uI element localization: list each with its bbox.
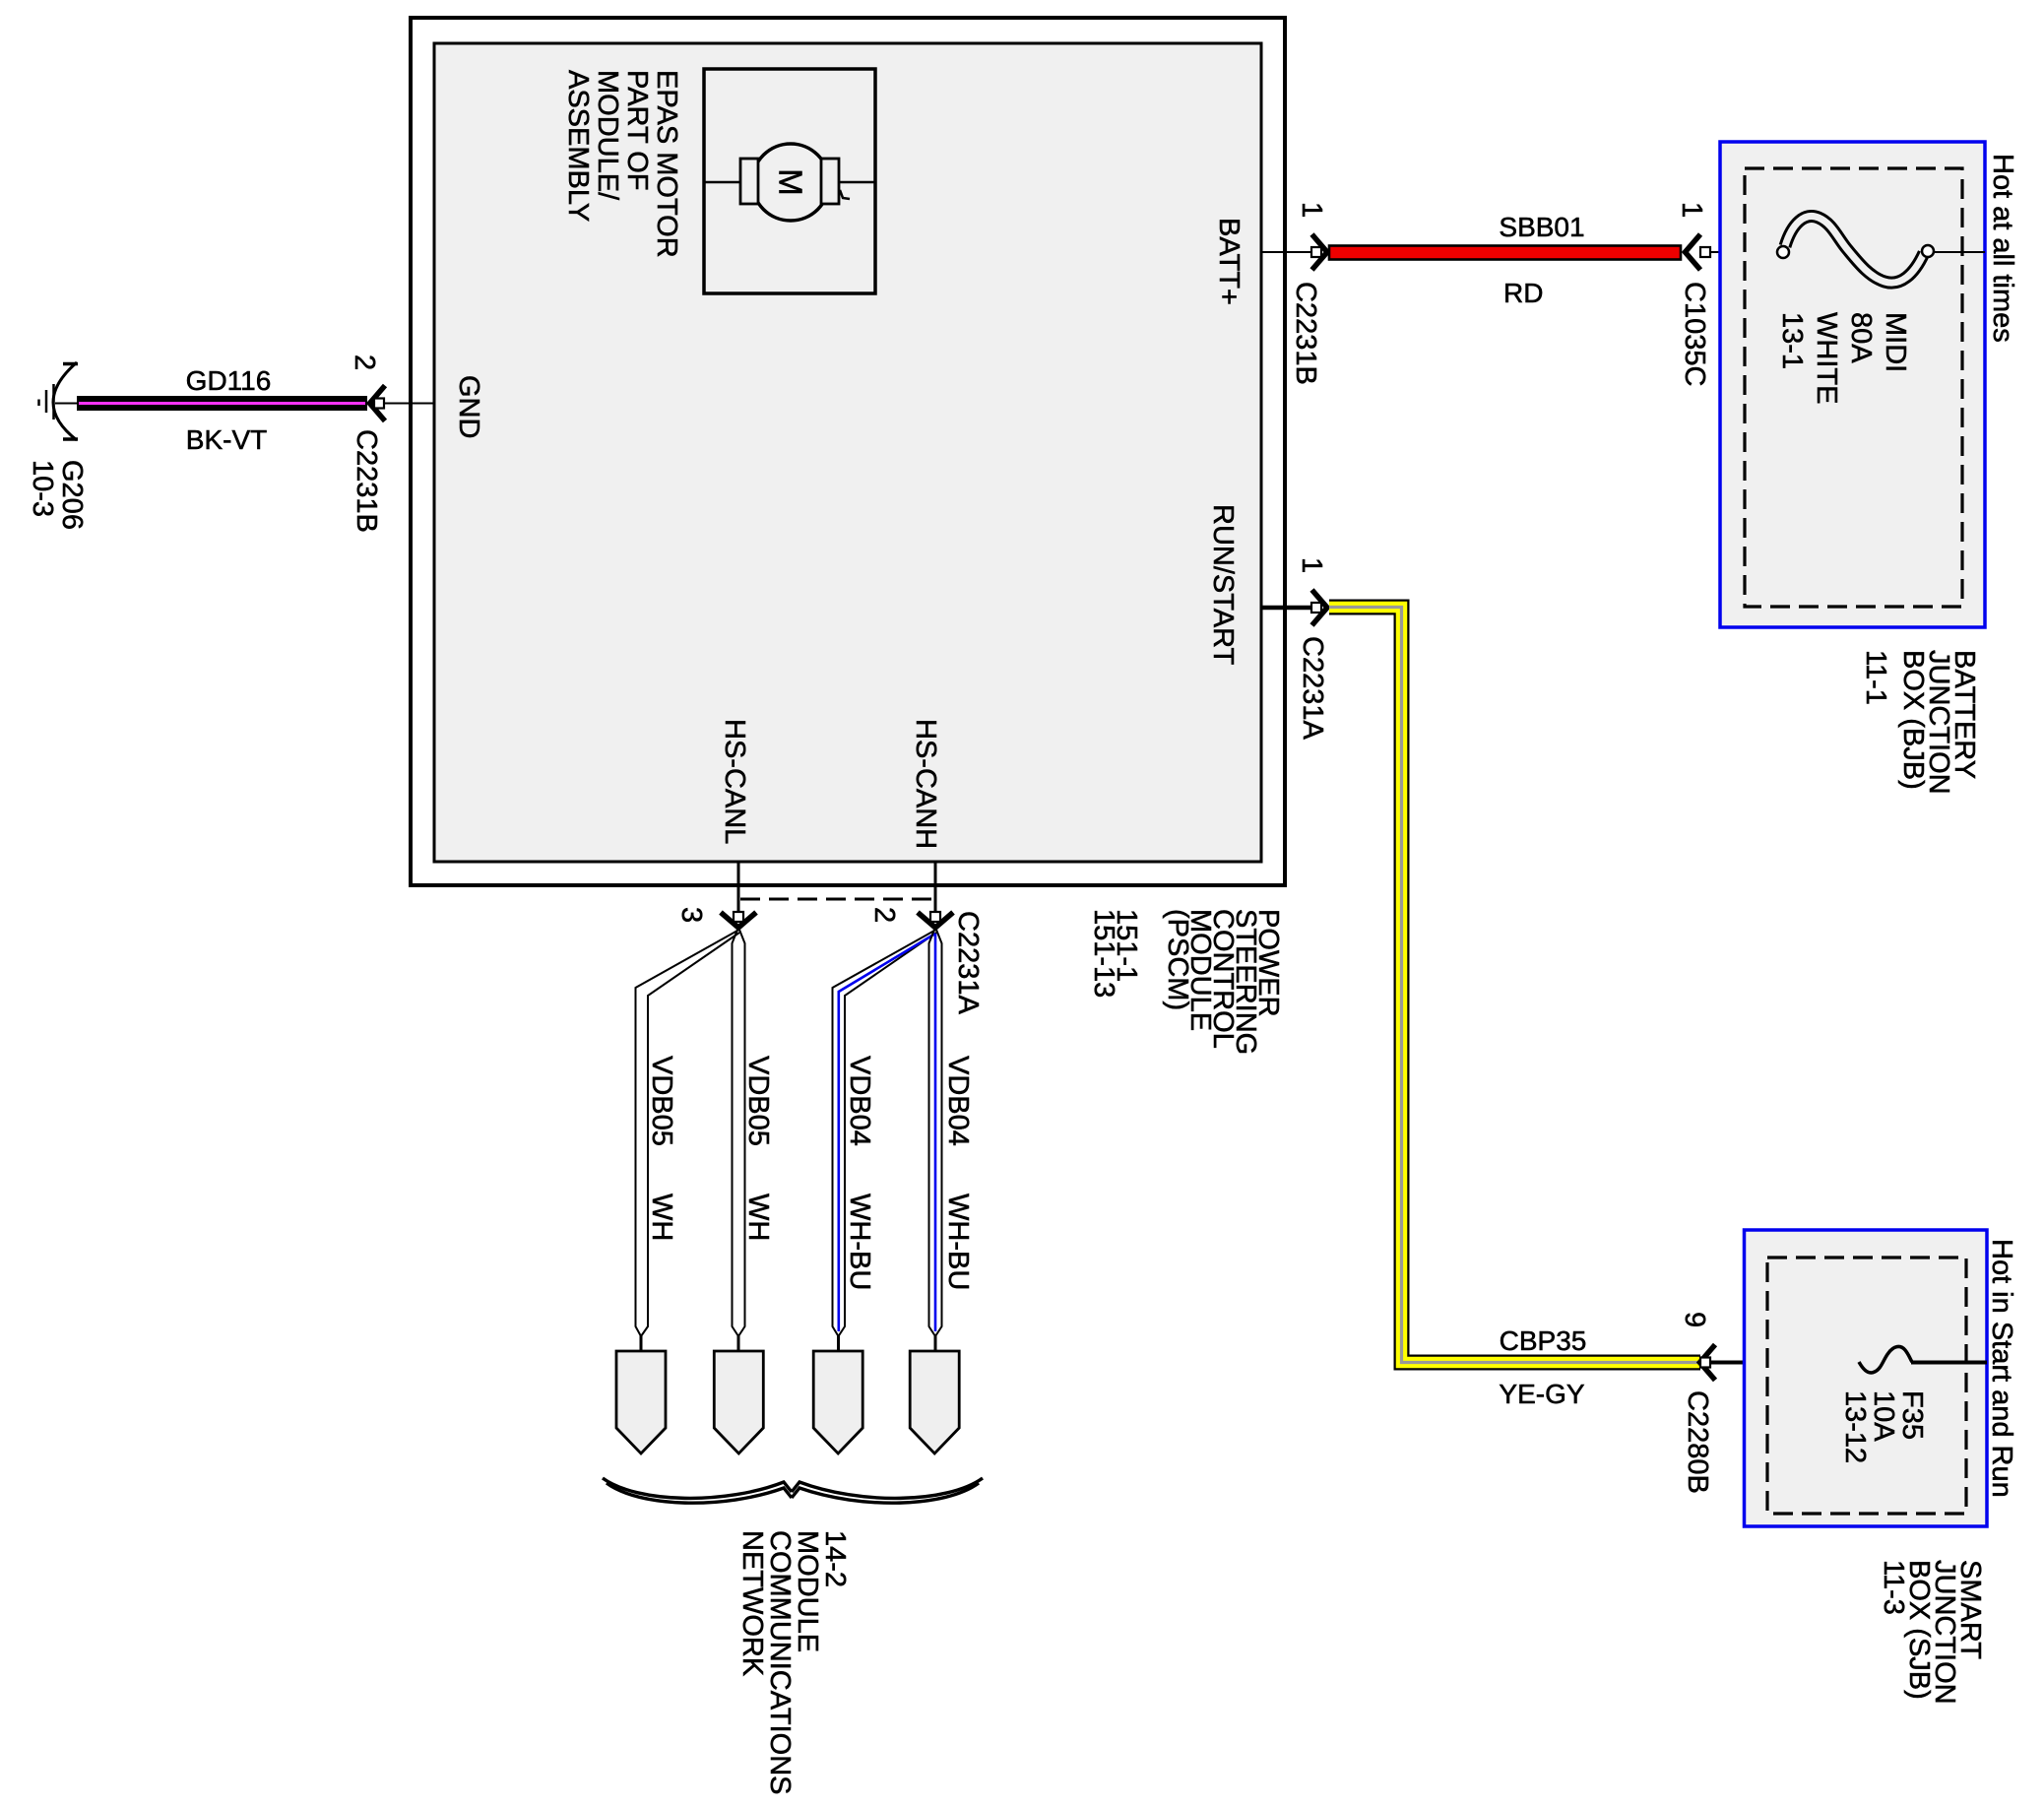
PSCM outer box: [411, 18, 1285, 885]
svg-text:Hot at all times: Hot at all times: [1987, 154, 2018, 343]
wire stub to terminal 1: [640, 1335, 643, 1352]
svg-text:2: 2: [868, 907, 900, 923]
svg-text:BATTERYJUNCTIONBOX (BJB)11-1: BATTERYJUNCTIONBOX (BJB)11-1: [1860, 650, 1980, 795]
wire stub HS-CANH: [934, 862, 937, 918]
svg-text:CBP35: CBP35: [1500, 1325, 1587, 1356]
terminal connector 2: [714, 1351, 763, 1453]
BJB dashed border: [1745, 168, 1962, 607]
svg-text:VDB05WH: VDB05WH: [646, 1056, 677, 1241]
wire stub to terminal 3: [837, 1335, 840, 1352]
svg-text:HS-CANH: HS-CANH: [910, 719, 941, 849]
wire SBB01 RD: [1329, 246, 1681, 260]
motor M1 circle: [752, 144, 829, 221]
svg-text:C2280B: C2280B: [1682, 1390, 1713, 1494]
smart junction box (SJB) blue box: [1745, 1230, 1988, 1526]
SJB dashed border: [1767, 1258, 1966, 1514]
twisted pair wire VDB05 (pin 3, straight drop): [733, 930, 745, 1336]
svg-text:BATT+: BATT+: [1213, 218, 1245, 305]
svg-text:2: 2: [349, 355, 380, 370]
fuse MIDI 80A wavy element: [1785, 216, 1924, 283]
terminal connector 1: [616, 1351, 666, 1453]
svg-text:C2231A: C2231A: [1297, 636, 1328, 740]
svg-text:RUN/START: RUN/START: [1207, 504, 1239, 666]
motor brush right: [821, 159, 839, 204]
svg-text:GD116: GD116: [186, 365, 272, 396]
wire fuse to BJB edge: [1934, 251, 1985, 253]
twisted pair wire VDB04 WH-BU (pin 2, left drop): [833, 931, 937, 1336]
fuse terminal circle right: [1922, 245, 1934, 257]
wire stub to terminal 2: [737, 1335, 740, 1352]
wire stub BATT+: [1261, 251, 1312, 253]
wire into BJB fuse: [1710, 251, 1779, 253]
svg-text:3: 3: [675, 907, 707, 923]
svg-text:M: M: [773, 168, 809, 196]
wire CBP35 YE-GY: [1329, 608, 1700, 1363]
motor M1 lead wire right: [838, 181, 874, 184]
svg-text:SMARTJUNCTIONBOX (SJB)11-3: SMARTJUNCTIONBOX (SJB)11-3: [1878, 1560, 1986, 1705]
twisted pair wire VDB05 (pin 3, left drop): [636, 931, 740, 1336]
battery junction box (BJB) blue box: [1720, 142, 1985, 627]
svg-text:BK-VT: BK-VT: [186, 424, 267, 455]
wire stub to terminal 4: [934, 1335, 937, 1352]
connector pin arrow C2231A-3: [721, 912, 756, 928]
wire stub RUN/START: [1261, 606, 1312, 611]
fuse terminal circle left: [1777, 246, 1789, 258]
brace module communications network: [603, 1478, 983, 1503]
svg-text:C2231A: C2231A: [952, 911, 984, 1014]
svg-text:POWERSTEERINGCONTROLMODULE(PSC: POWERSTEERINGCONTROLMODULE(PSCM)151-1151…: [1088, 909, 1284, 1055]
connector C2231A dashed link: [740, 898, 933, 901]
svg-text:1: 1: [1296, 557, 1327, 573]
svg-text:YE-GY: YE-GY: [1499, 1379, 1584, 1409]
terminal connector 3: [813, 1351, 862, 1453]
wire fuse to SJB edge: [1911, 1361, 1987, 1365]
connector pin arrow C2231B-2: [370, 386, 386, 421]
svg-text:HS-CANL: HS-CANL: [719, 719, 750, 844]
wire GD116 BK-VT: [77, 396, 367, 411]
motor polarity tick: [840, 190, 850, 199]
svg-text:C2231B: C2231B: [351, 429, 382, 533]
wire stub GND to box: [367, 403, 434, 405]
svg-text:VDB04WH-BU: VDB04WH-BU: [942, 1056, 974, 1290]
svg-text:14-2MODULECOMMUNICATIONSNETWOR: 14-2MODULECOMMUNICATIONSNETWORK: [736, 1530, 851, 1795]
svg-text:C1035C: C1035C: [1679, 282, 1710, 386]
wire stub HS-CANL: [737, 862, 740, 918]
ground symbol G206: [39, 362, 79, 440]
connector pin arrow C2231B-1: [1311, 234, 1327, 270]
connector pin arrow C2280B-9: [1700, 1345, 1716, 1381]
motor M1 lead wire left: [705, 181, 742, 184]
connector pin arrow C2231A-1: [1311, 590, 1327, 625]
connector pin arrow C2231A-2: [918, 912, 953, 928]
connector pin arrow C1035C-1: [1686, 234, 1711, 270]
terminal connector 4: [910, 1351, 959, 1453]
svg-text:RD: RD: [1503, 278, 1543, 308]
svg-text:VDB04WH-BU: VDB04WH-BU: [844, 1056, 875, 1290]
twisted pair wire VDB04 WH-BU (pin 2, straight drop): [929, 930, 942, 1336]
PSCM inner box: [434, 43, 1261, 862]
wire into SJB fuse: [1710, 1361, 1864, 1365]
svg-text:1: 1: [1296, 202, 1327, 218]
fuse F35 squiggle: [1859, 1346, 1912, 1373]
svg-text:VDB05WH: VDB05WH: [742, 1056, 774, 1241]
motor brush left: [740, 159, 758, 204]
svg-text:G20610-3: G20610-3: [27, 460, 88, 530]
svg-text:C2231B: C2231B: [1290, 282, 1321, 385]
svg-text:Hot in Start and Run: Hot in Start and Run: [1986, 1239, 2017, 1498]
svg-text:GND: GND: [453, 375, 484, 438]
svg-text:SBB01: SBB01: [1499, 212, 1584, 242]
svg-text:1: 1: [1676, 202, 1707, 218]
EPAS motor box: [704, 69, 875, 293]
svg-text:9: 9: [1679, 1312, 1710, 1327]
